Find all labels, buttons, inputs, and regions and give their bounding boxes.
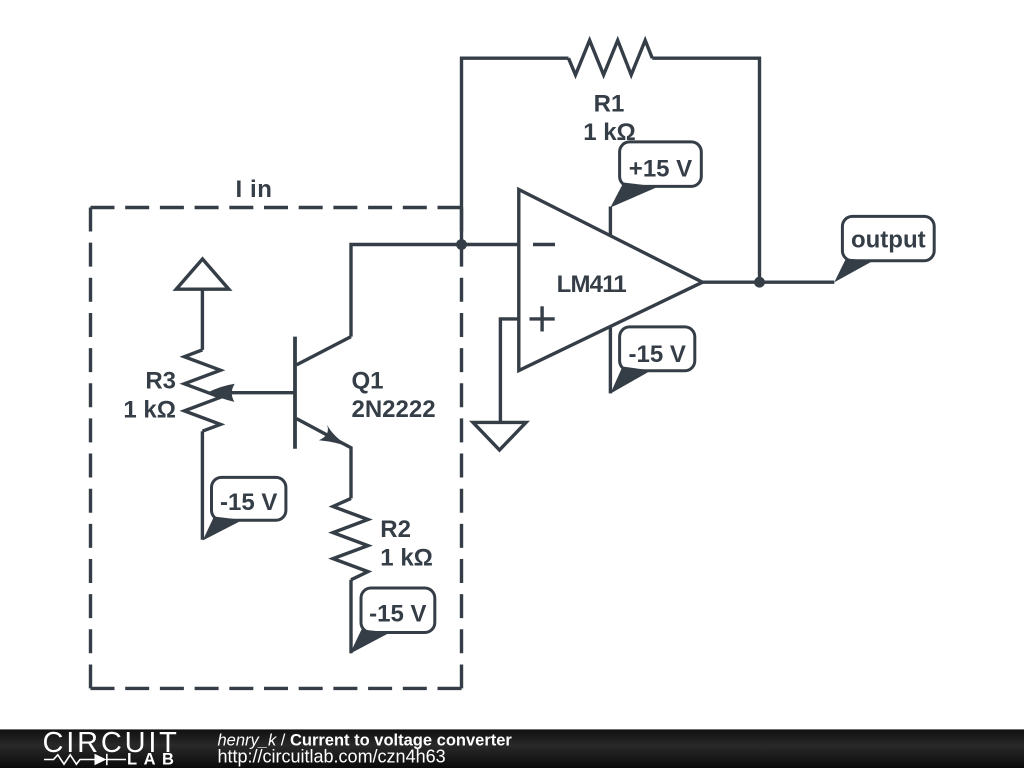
svg-text:-15 V: -15 V bbox=[629, 341, 686, 368]
svg-text:-15 V: -15 V bbox=[369, 601, 426, 628]
svg-text:output: output bbox=[851, 227, 926, 254]
svg-text:I in: I in bbox=[235, 176, 272, 203]
svg-text:1 kΩ: 1 kΩ bbox=[123, 396, 176, 423]
svg-text:Q1: Q1 bbox=[352, 368, 384, 395]
svg-text:1 kΩ: 1 kΩ bbox=[380, 545, 433, 572]
svg-text:+15 V: +15 V bbox=[629, 156, 692, 183]
svg-text:R2: R2 bbox=[380, 516, 411, 543]
svg-text:http://circuitlab.com/czn4h63: http://circuitlab.com/czn4h63 bbox=[218, 747, 446, 767]
svg-text:R1: R1 bbox=[594, 91, 625, 118]
svg-text:2N2222: 2N2222 bbox=[352, 396, 436, 423]
svg-text:LM411: LM411 bbox=[557, 271, 627, 298]
svg-text:R3: R3 bbox=[145, 368, 176, 395]
svg-text:-15 V: -15 V bbox=[220, 489, 277, 516]
svg-text:1 kΩ: 1 kΩ bbox=[583, 119, 636, 146]
svg-text:LAB: LAB bbox=[127, 751, 180, 768]
